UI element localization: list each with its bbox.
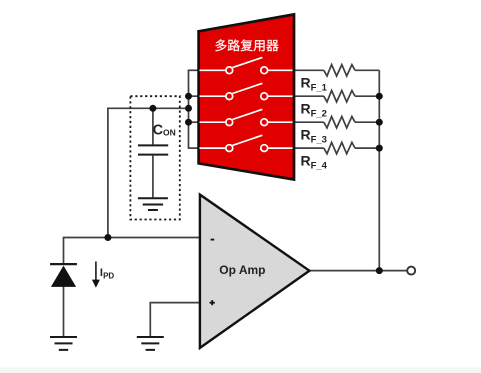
capacitor C_ON bottom lead xyxy=(152,156,154,198)
dashed box around CON switch capacitance xyxy=(130,96,179,219)
wire mux output row 3 to resistor RF_3 xyxy=(292,121,324,123)
ground for op-amp non-inverting input xyxy=(137,337,164,350)
node bus row2 junction dot xyxy=(185,93,192,100)
wire mux input stub row 1 xyxy=(188,69,201,71)
wire op-amp output to terminal xyxy=(308,270,407,272)
node feedback row2 junction dot xyxy=(376,93,383,100)
svg-text:F_4: F_4 xyxy=(311,160,328,171)
node feedback row4 junction dot xyxy=(376,145,383,152)
ground for C_ON xyxy=(138,198,168,210)
wire mux input bus vertical xyxy=(188,70,190,148)
wire mux input stub row 4 xyxy=(188,147,201,149)
photodiode D1 triangle xyxy=(51,266,76,287)
wire op-amp non-inverting input to ground xyxy=(150,302,200,337)
node inverting input junction dot xyxy=(104,234,111,241)
svg-text:R: R xyxy=(301,153,311,169)
wire resistor RF_4 to feedback bus xyxy=(355,147,379,149)
capacitor C_ON plates xyxy=(138,145,168,154)
wire left vertical from CON top rail down to inverting node xyxy=(107,108,109,238)
wire mux input stub row 3 xyxy=(188,121,201,123)
wire from photodiode node to op-amp inverting input xyxy=(64,237,201,239)
resistor RF_4 zigzag xyxy=(324,142,355,153)
wire feedback bus vertical to output node xyxy=(378,70,380,270)
svg-text:Op Amp: Op Amp xyxy=(219,263,265,277)
multiplexer body xyxy=(199,14,294,179)
capacitor C_ON top lead xyxy=(152,108,154,144)
wire resistor RF_2 to feedback bus xyxy=(355,95,379,97)
switch S3 inside multiplexer xyxy=(200,109,293,125)
wire photodiode cathode to node xyxy=(63,237,65,264)
wire photodiode anode to ground xyxy=(63,286,65,337)
svg-text:ON: ON xyxy=(163,127,176,137)
wire mux input stub row 2 xyxy=(188,95,201,97)
wire resistor RF_1 to feedback bus xyxy=(355,69,379,71)
photodiode D1 cathode bar xyxy=(50,263,77,265)
op-amp inverting input marker xyxy=(211,239,215,241)
svg-text:R: R xyxy=(301,101,311,117)
wire mux output row 1 to resistor RF_1 xyxy=(292,69,324,71)
svg-text:F_2: F_2 xyxy=(311,108,327,119)
node CON tap junction dot xyxy=(149,105,156,112)
node feedback row3 junction dot xyxy=(376,119,383,126)
node bus CON rail junction dot xyxy=(185,105,192,112)
svg-text:C: C xyxy=(153,123,164,139)
svg-text:F_3: F_3 xyxy=(311,134,327,145)
svg-text:F_1: F_1 xyxy=(311,83,328,94)
wire mux output row 4 to resistor RF_4 xyxy=(292,147,324,149)
node bus row3 junction dot xyxy=(185,119,192,126)
svg-text:PD: PD xyxy=(103,271,114,280)
resistor RF_1 zigzag xyxy=(324,65,355,76)
op-amp non-inverting input marker xyxy=(210,300,215,305)
ground for photodiode xyxy=(50,337,77,350)
label multiplexer (Chinese) xyxy=(215,39,226,51)
wire CON top rail horizontal xyxy=(107,107,188,109)
switch S4 inside multiplexer xyxy=(200,135,293,151)
op-amp U1 body xyxy=(200,195,310,348)
switch S1 inside multiplexer xyxy=(200,57,293,73)
wire resistor RF_3 to feedback bus xyxy=(355,121,379,123)
current arrow I_PD xyxy=(95,262,97,281)
switch S2 inside multiplexer xyxy=(200,83,293,99)
wire mux output row 2 to resistor RF_2 xyxy=(292,95,324,97)
resistor RF_3 zigzag xyxy=(324,117,355,128)
svg-text:R: R xyxy=(301,127,311,143)
svg-text:R: R xyxy=(301,75,311,91)
resistor RF_2 zigzag xyxy=(324,91,355,102)
output terminal open circle xyxy=(407,267,415,275)
node output junction dot xyxy=(376,267,383,274)
